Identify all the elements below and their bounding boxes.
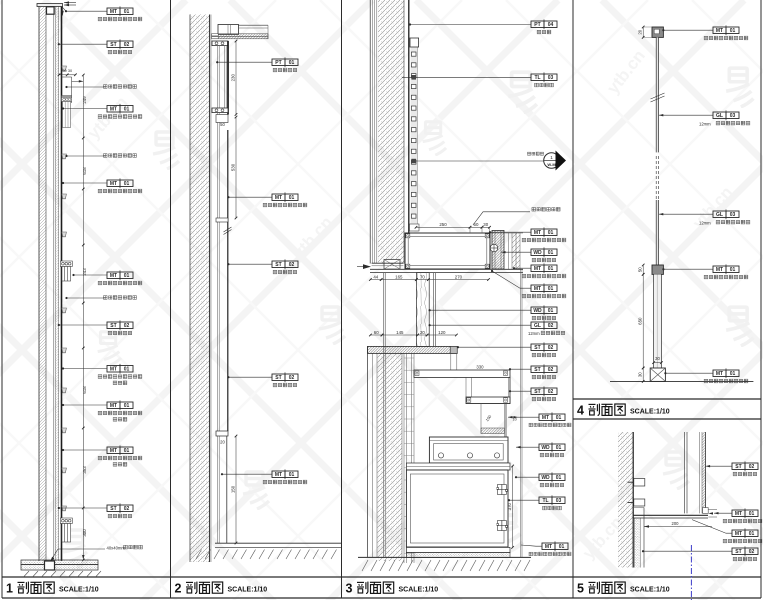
text 金属板亚光漆(暖灰色) P4-1 xyxy=(704,36,748,40)
svg-text:01: 01 xyxy=(548,286,554,292)
text 镀锌方管 P1 xyxy=(124,545,143,549)
svg-text:02: 02 xyxy=(124,42,130,48)
svg-text:MT: MT xyxy=(534,266,541,272)
tag MT-01 P2 skirting xyxy=(272,469,298,479)
svg-text:230: 230 xyxy=(230,74,235,82)
svg-text:03: 03 xyxy=(556,498,562,504)
tag GL-03 P4 upper xyxy=(713,110,739,120)
text 金属板亚光漆(暖灰色) P2 xyxy=(263,203,307,207)
text 内藏LED灯带 P1-c xyxy=(103,296,136,300)
svg-text:650: 650 xyxy=(638,317,643,325)
leader 40x40 tube P1 xyxy=(50,549,105,562)
dim 20 P4 xyxy=(642,27,644,37)
plaster strip below slab P5 xyxy=(634,518,640,568)
leader MT-01 mid P4 xyxy=(663,268,713,270)
tag MT-01 P1 #6 xyxy=(107,400,133,410)
leader ST-02 #3 P3 xyxy=(510,390,531,392)
wood post P3 xyxy=(416,273,429,347)
svg-text:01: 01 xyxy=(556,445,562,451)
svg-text:SCALE:1/10: SCALE:1/10 xyxy=(59,586,99,593)
svg-text:30: 30 xyxy=(62,69,66,73)
text 金属板亚光漆(暖灰色) P1-8 xyxy=(98,411,142,415)
dim 150 P2 xyxy=(235,436,237,543)
tag MT-01 P1 #2 xyxy=(107,104,133,114)
sheet frame left border xyxy=(1,0,3,598)
floor level arrow P3 xyxy=(363,264,371,269)
svg-text:4: 4 xyxy=(577,404,584,418)
svg-text:TL: TL xyxy=(542,498,548,504)
svg-text:250: 250 xyxy=(439,222,447,227)
stone furring lines P2 xyxy=(217,46,219,543)
svg-text:WD: WD xyxy=(541,445,550,451)
text 中花白石材 P3-2 xyxy=(532,375,556,379)
ceiling frame P2 xyxy=(218,25,239,35)
stone panel bottom cap P2 xyxy=(212,108,228,113)
svg-text:MT: MT xyxy=(110,9,117,15)
svg-text:SCALE:1/10: SCALE:1/10 xyxy=(630,408,670,415)
svg-text:20: 20 xyxy=(638,29,643,34)
tag GL-03 P4 lower xyxy=(713,209,739,219)
svg-text:50: 50 xyxy=(638,267,643,272)
counter end verticals P3 xyxy=(450,353,452,370)
svg-text:30: 30 xyxy=(483,222,488,227)
svg-text:01: 01 xyxy=(548,266,554,272)
leader MT-01 top P4 xyxy=(663,29,713,31)
stone joint P2 xyxy=(216,218,228,222)
svg-text:12mm: 12mm xyxy=(528,331,540,336)
text 染色木饰面 P3-3 xyxy=(540,453,564,457)
tag MT-01 P5 #2 xyxy=(732,528,758,538)
leader MT-01 #1 P5 xyxy=(714,512,732,514)
svg-text:150: 150 xyxy=(230,485,235,493)
svg-text:02: 02 xyxy=(548,345,554,351)
concrete wall hatch P2 xyxy=(190,15,210,563)
svg-text:243: 243 xyxy=(82,268,87,276)
leader WD-01 P3 xyxy=(501,251,531,253)
svg-text:01: 01 xyxy=(124,9,130,15)
metal skirting face P2 xyxy=(226,436,228,543)
blue centerline P5 xyxy=(690,545,692,600)
tag MT-01 P1 #7 xyxy=(107,445,133,455)
svg-text:1: 1 xyxy=(550,155,553,160)
tag PT-04 P3 xyxy=(531,19,557,29)
tag GL-02 P3 xyxy=(531,320,557,330)
leader MT-01 #3 P1 xyxy=(63,182,107,184)
furring channel column P3 xyxy=(403,353,405,563)
dim line 200 P5 xyxy=(644,526,712,528)
tag MT-01 metal panel (top) P1 xyxy=(107,6,133,16)
text 金属板亚光漆(暖灰色) P1-7 xyxy=(98,375,142,379)
text 灰色乳胶漆 P2 xyxy=(273,68,297,72)
LED slot P3 xyxy=(481,428,504,434)
tag TL-03 P3 #2 xyxy=(539,495,565,505)
svg-text:70: 70 xyxy=(420,274,425,279)
svg-text:MT: MT xyxy=(534,286,541,292)
right extension lines P3 xyxy=(508,233,510,269)
tag ST-02 P5 upper xyxy=(732,461,758,471)
hanger rod double line P3 xyxy=(383,273,385,557)
bolt symbol P3 xyxy=(490,244,498,252)
svg-text:MT: MT xyxy=(735,511,742,517)
dim 165 P3 xyxy=(381,279,416,281)
leader WD-01 #2 P3 xyxy=(430,309,531,311)
tag MT-01 P3 #2 xyxy=(531,263,557,273)
dim 650 P4 xyxy=(642,274,644,368)
floor pocket for tube P1 xyxy=(45,561,55,570)
tag WD-01 P3 cabinet xyxy=(539,472,565,482)
ground hatch ticks P1 xyxy=(24,571,29,577)
svg-text:01: 01 xyxy=(289,195,295,201)
text 选型注意 P3 xyxy=(527,152,543,155)
tag ST-02 P3 #2 xyxy=(531,364,557,374)
svg-text:WD: WD xyxy=(541,475,550,481)
slab end fittings P5 xyxy=(703,508,709,514)
text 乳胶漆 P3 xyxy=(537,30,551,34)
svg-text:03: 03 xyxy=(730,113,736,119)
text 金属板亚光漆(暖灰色) P1-5 xyxy=(98,281,142,285)
leader ST-02 lower P2 xyxy=(228,376,272,378)
tag MT-01 P4 base xyxy=(713,368,739,378)
svg-text:MT: MT xyxy=(735,531,742,537)
svg-text:618: 618 xyxy=(82,386,87,394)
leader ST-02 lower P5 xyxy=(643,550,732,552)
finish face line P5 xyxy=(643,508,645,568)
dim 250 P3 xyxy=(416,226,470,228)
svg-text:03: 03 xyxy=(730,212,736,218)
leader MT-01 #7 P1 xyxy=(63,449,107,451)
svg-text:02: 02 xyxy=(289,262,295,268)
wall brackets P5 xyxy=(634,479,645,487)
channel foot P3 xyxy=(410,224,420,231)
stone return step P2 xyxy=(216,115,228,123)
svg-text:249: 249 xyxy=(82,96,87,104)
svg-text:MT: MT xyxy=(275,195,282,201)
panel fixing clips P1 xyxy=(62,66,67,71)
tag MT-01 P3 #3 xyxy=(531,283,557,293)
stone face lower P2 xyxy=(227,130,229,431)
tag PT-01 paint P2 xyxy=(272,57,298,67)
floor anchor X-box P4 xyxy=(650,368,665,381)
leader ST-02 #3 P1 xyxy=(59,507,107,509)
leader PT-01 P2 xyxy=(217,61,272,63)
dim 60 P3 xyxy=(370,334,382,336)
glass bottom cap P4 xyxy=(652,265,663,274)
svg-text:01: 01 xyxy=(548,250,554,256)
counter top slab P3 xyxy=(368,346,458,353)
side panel hatch strip P3 xyxy=(512,233,520,269)
wall face bold line P3 xyxy=(408,0,410,234)
svg-text:145: 145 xyxy=(396,330,404,335)
baseboard P3 xyxy=(406,547,510,552)
dim 145 P3 xyxy=(382,334,418,336)
svg-text:PT: PT xyxy=(534,22,540,28)
svg-text:WD: WD xyxy=(533,250,542,256)
text 金属板亚光漆(暖灰色) P5-2 xyxy=(723,539,763,543)
sheet frame right border xyxy=(760,0,762,598)
svg-text:01: 01 xyxy=(124,273,130,279)
step1 slab P3 xyxy=(414,370,510,377)
text 内藏LED灯带 P1-a xyxy=(103,85,136,89)
embedded blocking square P1 xyxy=(47,7,55,14)
LED cove light fixture P1 (lower) xyxy=(60,518,72,542)
channel top block P3 xyxy=(410,38,419,47)
text 背藏光 P1-9b xyxy=(113,462,127,466)
X-blocking box P3 xyxy=(384,260,400,270)
upper wall face lines P3 xyxy=(369,0,371,264)
leader TL-03 P3 xyxy=(402,76,531,78)
svg-text:02: 02 xyxy=(548,367,554,373)
tag ST-02 P2 lower xyxy=(272,372,298,382)
stone panel top cap P2 xyxy=(212,41,228,46)
spec-selection section marker P3 xyxy=(414,160,545,162)
svg-text:20: 20 xyxy=(420,330,425,335)
dim 30 P3 xyxy=(482,226,490,228)
leader to MT-01 top P1 xyxy=(66,10,107,12)
leader ST-02 #1 P3 xyxy=(458,346,531,348)
leader LED P1-a xyxy=(67,86,106,88)
svg-text:12mm: 12mm xyxy=(699,220,711,225)
dim 370 P3 xyxy=(512,466,514,547)
text 金属板亚光漆(暖灰色) P3-1 xyxy=(522,238,566,242)
svg-text:02: 02 xyxy=(124,506,130,512)
step riser verticals P3 xyxy=(465,377,467,397)
svg-text:GL: GL xyxy=(716,212,723,218)
text 金属板亚光漆(暖灰色) P3-4 xyxy=(529,423,571,427)
svg-text:3: 3 xyxy=(346,582,353,596)
text 金属板亚光漆(暖灰色) P3-2 xyxy=(522,274,566,278)
top cap P1 xyxy=(37,4,63,7)
dim 530 P2 xyxy=(235,117,237,218)
svg-text:W-M: W-M xyxy=(547,162,556,167)
cabinet clip fittings P3 xyxy=(497,485,508,495)
svg-text:ST: ST xyxy=(534,389,540,395)
text 背藏光 P1-7b xyxy=(113,381,127,385)
text 钛金嵌条 P3-2 xyxy=(543,506,562,510)
svg-text:01: 01 xyxy=(730,28,736,34)
tag WD-01 P3 xyxy=(531,247,557,257)
dim 230 P2 xyxy=(235,41,237,115)
text 中花白石材 P1-2 xyxy=(108,50,132,54)
glass break marks P4 xyxy=(651,93,665,99)
leader ST-02 #2 P1 xyxy=(59,324,107,326)
svg-text:02: 02 xyxy=(124,323,130,329)
svg-text:MT: MT xyxy=(110,448,117,454)
text 中花白石材 P2-2 xyxy=(273,383,297,387)
tag ST-02 stone (upper) P1 xyxy=(107,39,133,49)
band below shelf P3 xyxy=(406,463,510,470)
cavity stud lines P1 xyxy=(53,7,55,562)
text 背藏光 P1-8b xyxy=(113,417,127,421)
leader WD-01 cabinet P3 xyxy=(516,476,539,478)
cabinet back lines P3 xyxy=(520,269,522,557)
leader GL-03 upper P4 xyxy=(659,114,713,116)
plinth band P3 xyxy=(370,268,523,270)
tag ST-02 P3 #3 xyxy=(531,386,557,396)
LED cove light fixture P1 (middle) xyxy=(60,261,72,281)
leader LED P1-c xyxy=(67,297,106,299)
svg-text:ST: ST xyxy=(735,549,741,555)
svg-text:1: 1 xyxy=(6,582,13,596)
svg-text:PT: PT xyxy=(275,60,281,66)
svg-text:SCALE:1/10: SCALE:1/10 xyxy=(228,586,268,593)
dim 20 P3 xyxy=(418,334,428,336)
svg-text:330: 330 xyxy=(476,364,484,369)
svg-text:01: 01 xyxy=(556,475,562,481)
svg-text:ST: ST xyxy=(534,345,540,351)
svg-text:MT: MT xyxy=(110,367,117,373)
leader TL-03 #2 P3 xyxy=(509,499,539,501)
wall hatch P5 xyxy=(618,432,633,568)
svg-text:MT: MT xyxy=(110,273,117,279)
svg-text:MT: MT xyxy=(716,267,723,273)
tag ST-02 P3 #1 xyxy=(531,342,557,352)
svg-text:01: 01 xyxy=(548,230,554,236)
text 金属板亚光漆(暖灰色) P2 skirting xyxy=(263,480,307,484)
svg-text:GL: GL xyxy=(716,113,723,119)
svg-text:02: 02 xyxy=(548,389,554,395)
niche side verticals P3 xyxy=(469,227,471,233)
svg-text:44: 44 xyxy=(373,274,378,279)
floor slab band P1 xyxy=(21,560,98,565)
dim 120 P3 xyxy=(427,334,456,336)
LED cove light fixture P1 (upper) xyxy=(71,77,73,103)
svg-text:01: 01 xyxy=(124,403,130,409)
svg-text:50: 50 xyxy=(220,122,225,127)
text 金属板亚光漆(暖灰色) P3-3 xyxy=(522,294,566,298)
wall hatched core P1 xyxy=(39,5,45,562)
bottom title band top rule xyxy=(2,576,761,578)
glass/mullion verticals P5 xyxy=(684,432,686,513)
ground hatch ticks P2 xyxy=(196,550,202,560)
svg-text:165: 165 xyxy=(395,274,403,279)
svg-text:618: 618 xyxy=(82,167,87,175)
panel 4: glass partition elevation/section xyxy=(610,26,753,383)
top leader arrows P1 xyxy=(64,2,76,4)
svg-text:40x40mm: 40x40mm xyxy=(107,546,126,551)
wall finish face line P1 xyxy=(38,4,40,561)
tag MT-01 P5 #1 xyxy=(732,508,758,518)
fixing channel with anchor squares P3 xyxy=(411,38,418,224)
tag ST-02 P1 #2 xyxy=(107,320,133,330)
svg-text:120: 120 xyxy=(438,330,446,335)
lower cabinet door P3 xyxy=(406,470,508,547)
tag WD-01 P3 #2 xyxy=(531,305,557,315)
panel 3: wall + millwork cabinet section xyxy=(357,0,531,571)
text 金属板亚光漆(暖灰色) P1-4 xyxy=(98,189,142,193)
leader MT-01 counter P3 xyxy=(490,231,531,233)
text 中花白石材 P3-1 xyxy=(532,353,556,357)
glass screen verticals P3 xyxy=(433,273,435,347)
svg-text:MT: MT xyxy=(275,472,282,478)
dim 70 P3 xyxy=(416,279,428,281)
svg-text:01: 01 xyxy=(749,531,755,537)
bottom title band bottom rule xyxy=(2,597,761,599)
svg-text:MT: MT xyxy=(545,544,552,550)
text 中花白石材 P5-1 xyxy=(733,472,757,476)
tag MT-01 P4 top xyxy=(713,25,739,35)
text 内藏LED灯带 P3 xyxy=(532,207,560,211)
svg-text:200: 200 xyxy=(672,521,680,526)
vertical dimension chain P1 xyxy=(82,75,84,560)
tag MT-01 P3 counter xyxy=(531,227,557,237)
text 金属板亚光漆(暖灰色) P1-9 xyxy=(98,456,142,460)
svg-text:01: 01 xyxy=(124,107,130,113)
dim 50 P3 xyxy=(470,226,482,228)
leader ST-02 upper P2 xyxy=(228,263,272,265)
svg-text:MT: MT xyxy=(110,107,117,113)
svg-text:01: 01 xyxy=(730,371,736,377)
stone bottom edge P2 xyxy=(216,431,228,436)
svg-text:03: 03 xyxy=(548,75,554,81)
text 中花白石材 P3-3 xyxy=(532,397,556,401)
leader MT-01 #2 P1 xyxy=(63,108,107,110)
step1 corner squares P3 xyxy=(415,371,419,375)
svg-text:SCALE:1/10: SCALE:1/10 xyxy=(399,586,439,593)
svg-text:353: 353 xyxy=(82,466,87,474)
leader MT-01 #5 P1 xyxy=(63,368,107,370)
floor lines P2 xyxy=(215,542,342,544)
svg-text:370: 370 xyxy=(507,502,512,510)
svg-text:MT: MT xyxy=(716,371,723,377)
panel 2: wall with stone cladding section xyxy=(190,15,342,563)
text 中花白石材 P5-2 xyxy=(733,557,757,561)
leader PT-04 P3 xyxy=(410,24,531,26)
text 宇轩灰玻璃(钻膜) P4-1 xyxy=(716,121,750,125)
svg-text:TL: TL xyxy=(534,75,540,81)
tag ST-02 P1 #3 xyxy=(107,503,133,513)
text 染色木饰面 P3-1 xyxy=(532,258,556,262)
step2 slab P3 xyxy=(466,397,510,404)
svg-text:02: 02 xyxy=(548,323,554,329)
svg-text:01: 01 xyxy=(559,544,565,550)
svg-text:ST: ST xyxy=(110,323,116,329)
text 中花白石材 P2-1 xyxy=(273,270,297,274)
shelf with holes P3 xyxy=(429,437,508,463)
tag WD-01 P3 shelf xyxy=(539,442,565,452)
lower wall face line P3 xyxy=(367,346,369,557)
furring hatched strip P1 xyxy=(55,7,58,562)
counter right support P3 xyxy=(492,231,504,270)
svg-text:270: 270 xyxy=(455,274,463,279)
leader to ST-02 P1 xyxy=(59,43,107,45)
svg-text:MT: MT xyxy=(716,28,723,34)
ceiling slab P5 xyxy=(633,514,708,516)
small vertical dim arrow at top P1 xyxy=(62,7,64,16)
panel 1: full-height wall section xyxy=(37,1,87,561)
dim 270 P3 xyxy=(428,279,488,281)
tag MT-01 P4 mid xyxy=(713,264,739,274)
svg-text:01: 01 xyxy=(749,511,755,517)
svg-text:ST: ST xyxy=(110,42,116,48)
svg-text:01: 01 xyxy=(124,448,130,454)
panel4 title band rules xyxy=(573,398,761,400)
text 金属板亚光漆(暖灰色) P4-3 xyxy=(704,379,748,383)
niche under step2 P3 xyxy=(466,403,510,405)
divider panel3/panel4+5 xyxy=(572,0,574,598)
metal panel face (bold) P1 xyxy=(61,5,63,562)
svg-text:04: 04 xyxy=(548,22,554,28)
svg-text:30: 30 xyxy=(655,356,660,361)
svg-text:20: 20 xyxy=(220,440,225,445)
glass pane P4 (lower) xyxy=(656,200,658,265)
svg-text:01: 01 xyxy=(730,267,736,273)
lower wall hatch P3 xyxy=(377,353,402,561)
upper wall hatch P3 xyxy=(378,0,404,264)
leader WD-01 shelf P3 xyxy=(516,446,539,448)
tag ST-02 P2 upper xyxy=(272,259,298,269)
dim 44 P3 xyxy=(370,279,381,281)
ceiling plasterboard layers P2 xyxy=(212,34,268,37)
